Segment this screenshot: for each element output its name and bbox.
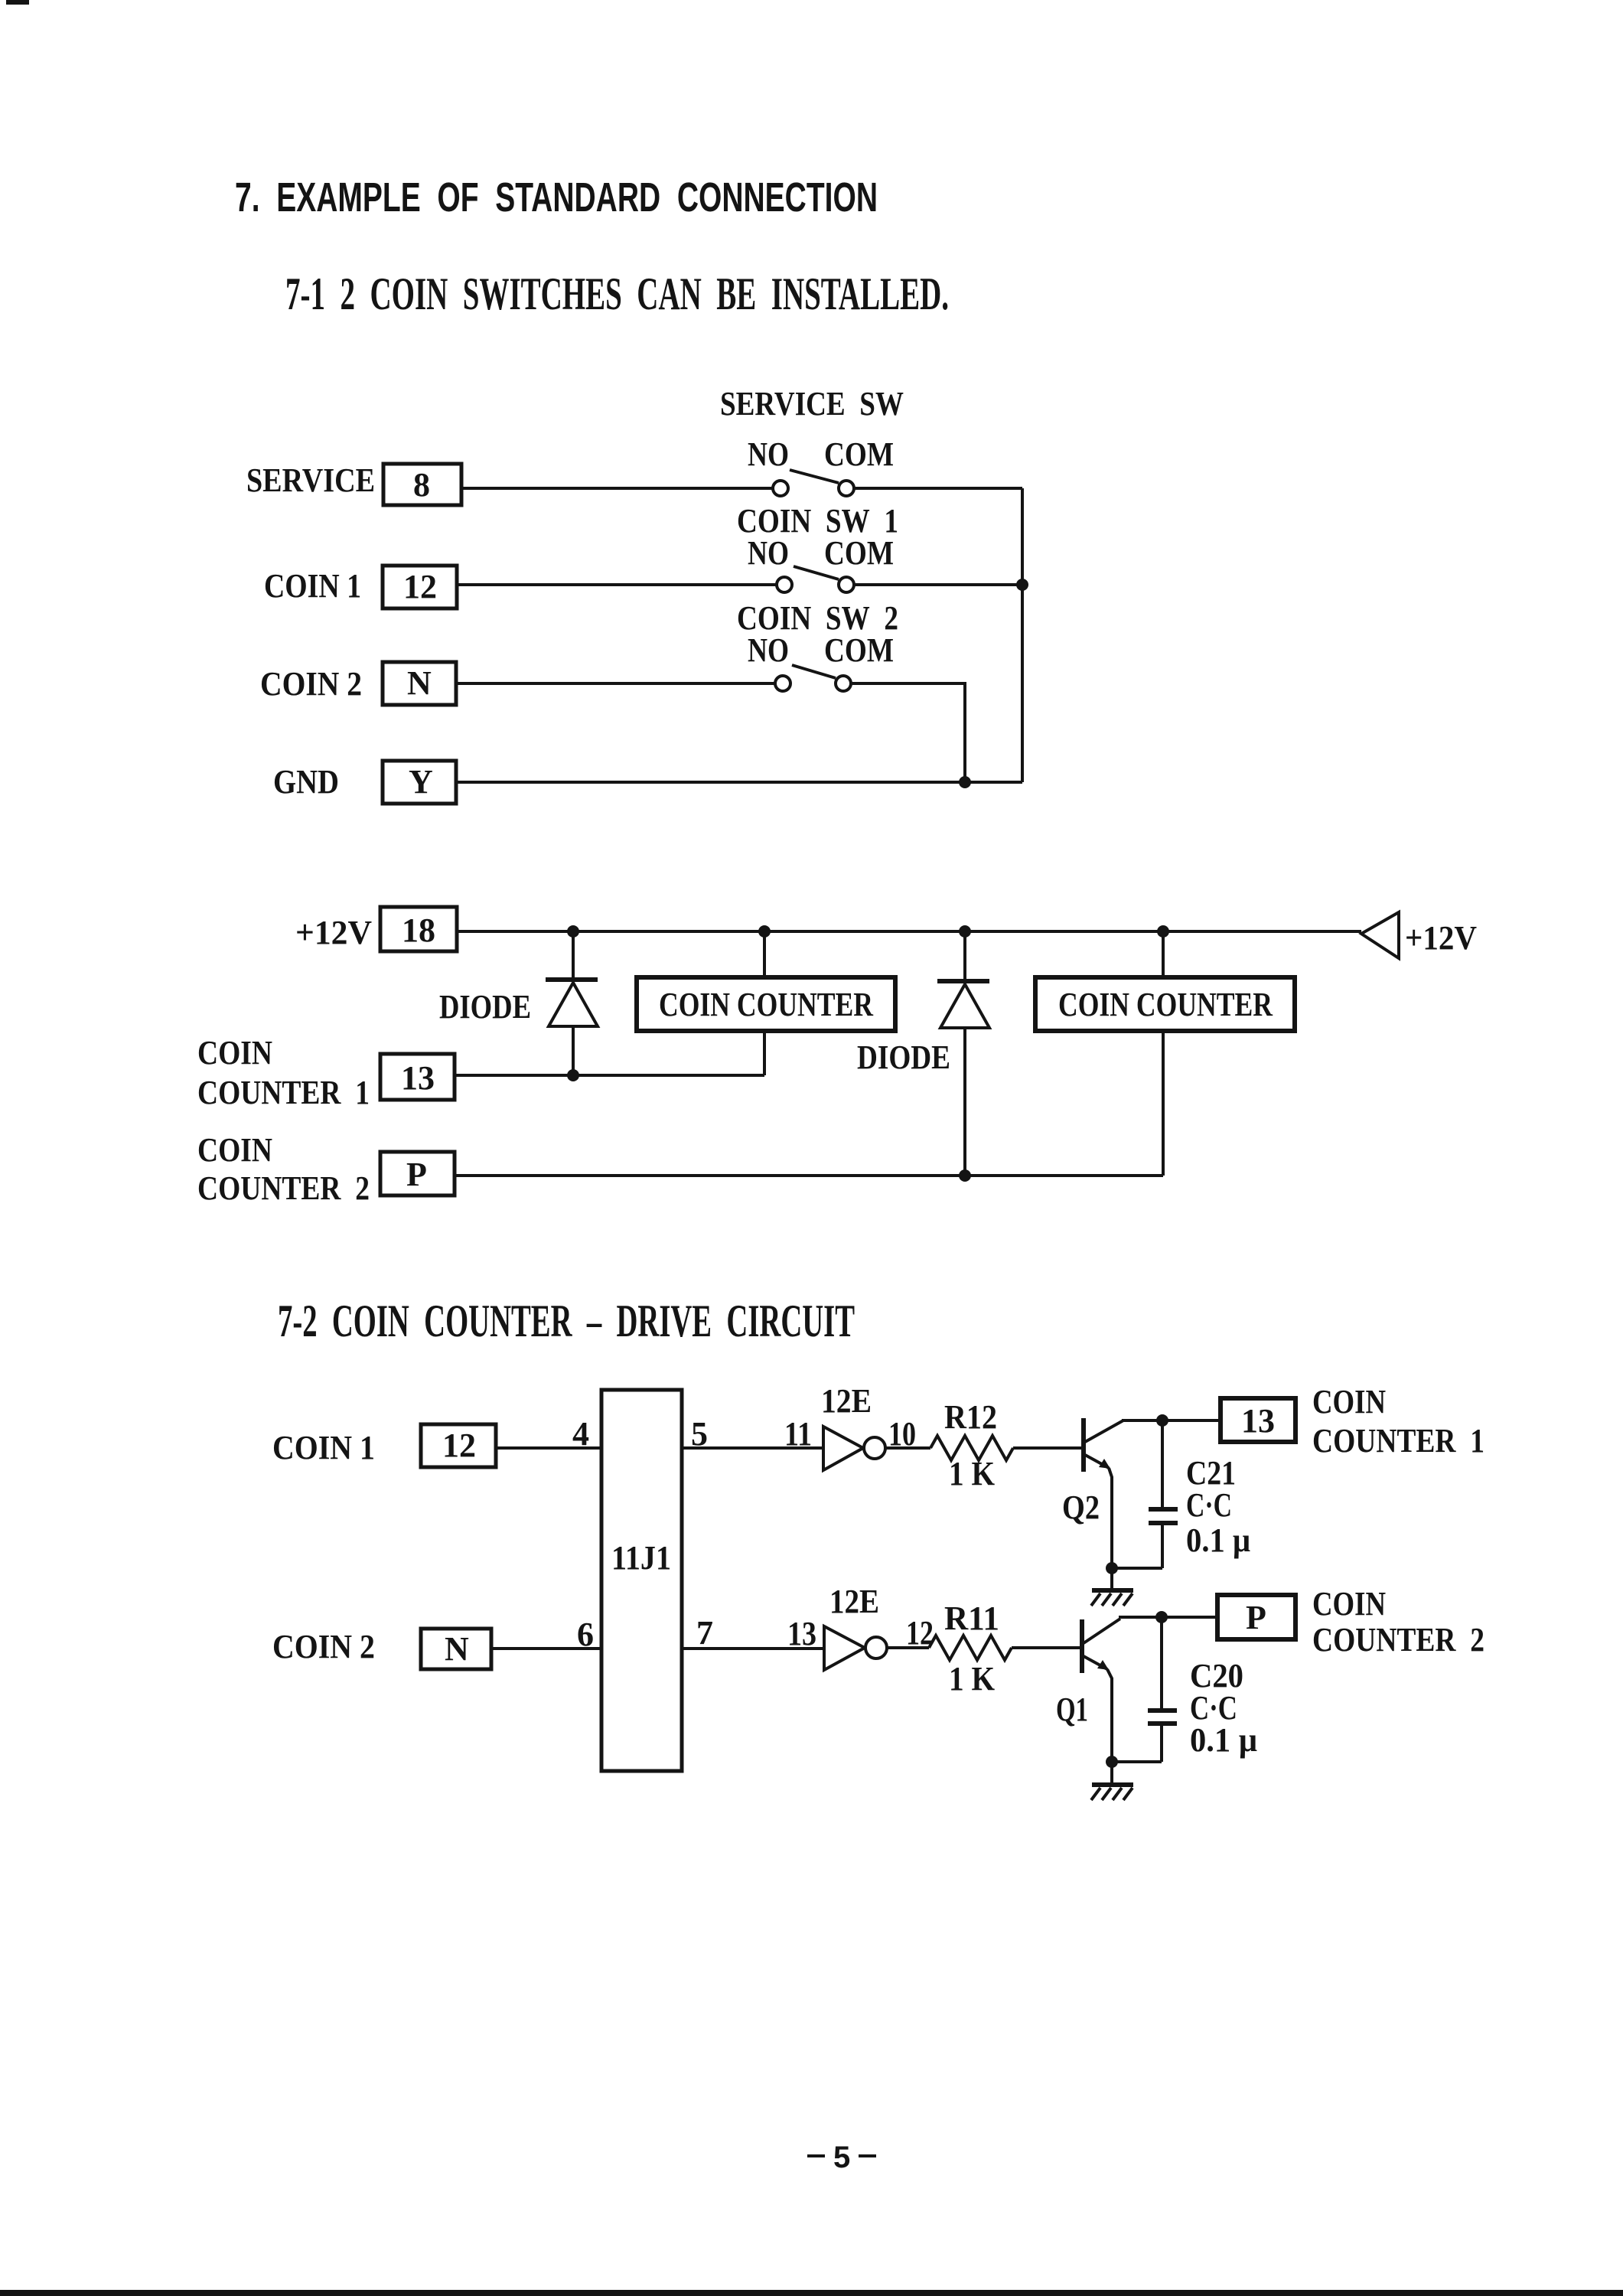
wire bus to counter2 top bbox=[1162, 931, 1165, 977]
wire coin1 COM to right bus bbox=[853, 583, 1022, 586]
wire coin2 to connector 11J1 bbox=[491, 1647, 601, 1650]
svg-text:12E: 12E bbox=[821, 1382, 872, 1420]
capacitor C21 bbox=[1149, 1420, 1178, 1568]
svg-text:5: 5 bbox=[833, 2141, 850, 2174]
wire GND Y to right bus bbox=[456, 781, 1022, 784]
wire 11J1 pin7 to inverter bbox=[682, 1647, 824, 1650]
label DIODE 2 bbox=[857, 1039, 950, 1076]
label COIN 1 bbox=[264, 567, 361, 605]
svg-text:COIN 1: COIN 1 bbox=[264, 567, 361, 605]
svg-text:COM: COM bbox=[824, 435, 894, 473]
svg-text:NO: NO bbox=[748, 631, 789, 669]
pin 6 bbox=[577, 1616, 594, 1653]
label COIN COUNTER 2 (right) bbox=[1312, 1585, 1484, 1658]
label SERVICE bbox=[246, 461, 375, 499]
diode D1 bbox=[546, 931, 598, 1075]
svg-text:13: 13 bbox=[1241, 1402, 1275, 1440]
svg-text:NO: NO bbox=[748, 534, 789, 572]
wire coin2 COM down to gnd row bbox=[850, 683, 965, 782]
svg-text:COIN 1: COIN 1 bbox=[272, 1429, 375, 1466]
bottom scan bar bbox=[0, 2290, 1623, 2296]
connector pin box 18 bbox=[380, 907, 457, 951]
wire coin1 12 to switch bbox=[457, 583, 777, 586]
label 1 K (R11) bbox=[949, 1660, 995, 1698]
pin 4 bbox=[572, 1415, 589, 1453]
label COIN 2 bbox=[260, 665, 362, 703]
label C-C (C21) bbox=[1186, 1486, 1232, 1524]
+12V arrow terminal bbox=[1361, 912, 1399, 958]
label GND bbox=[273, 763, 339, 801]
resistor R11 bbox=[888, 1636, 1080, 1660]
svg-text:R12: R12 bbox=[944, 1398, 997, 1436]
label +12V right bbox=[1405, 919, 1477, 957]
junction emitter/gnd 2 bbox=[1106, 1756, 1118, 1768]
svg-text:6: 6 bbox=[577, 1616, 594, 1653]
svg-text:+12V: +12V bbox=[1405, 919, 1477, 957]
ground (Q2 emitter) bbox=[1091, 1568, 1133, 1606]
junction counter1/bus bbox=[758, 925, 771, 938]
connector pin box N (7-2) bbox=[421, 1629, 491, 1669]
svg-text:R11: R11 bbox=[944, 1600, 999, 1637]
label COIN 2 bbox=[272, 1628, 375, 1665]
junction coin2/gnd bbox=[959, 776, 971, 788]
pin 13 bbox=[787, 1615, 816, 1652]
wire Q2 collector to box 13 bbox=[1122, 1419, 1221, 1422]
svg-text:Q1: Q1 bbox=[1056, 1691, 1088, 1728]
label 12E (inverter 2) bbox=[829, 1583, 879, 1620]
page number - 5 - bbox=[807, 2141, 876, 2174]
right bus vertical wire bbox=[1021, 488, 1024, 782]
svg-text:DIODE: DIODE bbox=[439, 988, 531, 1026]
junction diode2/P row bbox=[959, 1169, 971, 1182]
label COM (coin sw 2) bbox=[824, 631, 894, 669]
svg-text:COIN: COIN bbox=[197, 1034, 272, 1071]
label COIN SW 2 bbox=[737, 599, 898, 637]
label C-C (C20) bbox=[1190, 1689, 1237, 1727]
junction collector/C21 bbox=[1156, 1414, 1168, 1427]
svg-text:SERVICE SW: SERVICE SW bbox=[720, 385, 904, 422]
svg-text:0.1 μ: 0.1 μ bbox=[1190, 1721, 1257, 1759]
svg-text:C·C: C·C bbox=[1186, 1486, 1232, 1524]
label R12 bbox=[944, 1398, 997, 1436]
svg-text:COM: COM bbox=[824, 631, 894, 669]
ground (Q1 emitter) bbox=[1091, 1762, 1133, 1800]
label NO (coin sw 2) bbox=[748, 631, 789, 669]
svg-text:NO: NO bbox=[748, 435, 789, 473]
wire service COM to right bus bbox=[853, 487, 1022, 490]
svg-text:Y: Y bbox=[409, 763, 433, 801]
label Q1 bbox=[1056, 1691, 1088, 1728]
svg-text:COUNTER 1: COUNTER 1 bbox=[1312, 1422, 1484, 1459]
svg-text:COIN COUNTER: COIN COUNTER bbox=[1058, 986, 1273, 1023]
svg-text:0.1 μ: 0.1 μ bbox=[1186, 1521, 1250, 1559]
connector pin box 13 (7-2) bbox=[1221, 1398, 1295, 1442]
label SERVICE SW bbox=[720, 385, 904, 422]
label R11 bbox=[944, 1600, 999, 1637]
pin 7 bbox=[696, 1614, 713, 1652]
svg-text:12E: 12E bbox=[829, 1583, 879, 1620]
switch COIN SW 1 bbox=[777, 566, 854, 592]
svg-text:7-1 2 COIN SWITCHES CAN B: 7-1 2 COIN SWITCHES CAN BE INSTALLED. bbox=[285, 269, 949, 319]
svg-text:11J1: 11J1 bbox=[611, 1539, 671, 1577]
svg-text:COIN: COIN bbox=[1312, 1585, 1386, 1623]
wire service 8 to switch bbox=[461, 487, 774, 490]
connector pin box Y bbox=[383, 761, 456, 804]
svg-text:COUNTER 1: COUNTER 1 bbox=[197, 1074, 370, 1111]
svg-text:COIN: COIN bbox=[197, 1131, 272, 1169]
svg-text:4: 4 bbox=[572, 1415, 589, 1453]
label C20 bbox=[1190, 1657, 1243, 1694]
label COM (service sw) bbox=[824, 435, 894, 473]
wire emitter row to C20 bottom bbox=[1112, 1760, 1162, 1763]
pin 5 bbox=[691, 1415, 708, 1453]
inverter U12E-1 bbox=[823, 1427, 885, 1470]
connector pin box P (7-2) bbox=[1217, 1595, 1295, 1639]
svg-text:N: N bbox=[407, 664, 432, 702]
label 0.1 u (C21) bbox=[1186, 1521, 1250, 1559]
svg-text:1 K: 1 K bbox=[949, 1660, 995, 1698]
svg-text:18: 18 bbox=[402, 912, 435, 949]
svg-text:DIODE: DIODE bbox=[857, 1039, 950, 1076]
svg-text:GND: GND bbox=[273, 763, 339, 801]
svg-text:1 K: 1 K bbox=[949, 1455, 995, 1492]
connector pin box 12 bbox=[383, 566, 457, 608]
pin 12 bbox=[906, 1614, 934, 1652]
label 1 K (R12) bbox=[949, 1455, 995, 1492]
svg-text:8: 8 bbox=[413, 466, 430, 504]
svg-text:12: 12 bbox=[403, 568, 437, 605]
junction diode2/bus bbox=[959, 925, 971, 938]
connector pin box P bbox=[380, 1152, 455, 1195]
label COIN 1 bbox=[272, 1429, 375, 1466]
label COIN SW 1 bbox=[737, 502, 898, 540]
pin 11 bbox=[784, 1415, 812, 1453]
svg-text:COM: COM bbox=[824, 534, 894, 572]
pin 10 bbox=[888, 1415, 916, 1453]
connector pin box 12 (7-2) bbox=[421, 1424, 496, 1467]
wire P row bbox=[455, 1174, 1163, 1177]
svg-text:P: P bbox=[1246, 1599, 1266, 1636]
wire counter2 bottom to P row bbox=[1162, 1031, 1165, 1176]
label COIN COUNTER 1 (right) bbox=[1312, 1383, 1484, 1459]
junction coin1/bus bbox=[1016, 579, 1028, 591]
scan artifact top-left corner mark bbox=[6, 0, 29, 5]
svg-text:SERVICE: SERVICE bbox=[246, 461, 375, 499]
svg-text:Q2: Q2 bbox=[1062, 1489, 1100, 1526]
wire coin1 to connector 11J1 bbox=[496, 1446, 601, 1450]
svg-text:11: 11 bbox=[784, 1415, 812, 1453]
junction collector/C20 bbox=[1155, 1611, 1168, 1623]
label NO (coin sw 1) bbox=[748, 534, 789, 572]
label COIN COUNTER 2 (left, two lines) bbox=[197, 1131, 370, 1207]
label Q2 bbox=[1062, 1489, 1100, 1526]
coin counter box 1 bbox=[637, 977, 895, 1031]
svg-text:COUNTER 2: COUNTER 2 bbox=[1312, 1621, 1484, 1658]
wire coin2 N to switch bbox=[456, 682, 776, 685]
label 12E (inverter 1) bbox=[821, 1382, 872, 1420]
label +12V left bbox=[295, 914, 372, 951]
label COM (coin sw 1) bbox=[824, 534, 894, 572]
junction counter2/bus bbox=[1157, 925, 1169, 938]
+12V bus wire bbox=[457, 930, 1361, 933]
junction emitter/gnd bbox=[1106, 1562, 1118, 1574]
svg-text:13: 13 bbox=[787, 1615, 816, 1652]
svg-text:13: 13 bbox=[401, 1059, 435, 1097]
switch COIN SW 2 bbox=[775, 665, 851, 691]
svg-text:COIN 2: COIN 2 bbox=[272, 1628, 375, 1665]
svg-text:+12V: +12V bbox=[295, 914, 372, 951]
svg-text:7: 7 bbox=[696, 1614, 713, 1652]
svg-text:N: N bbox=[445, 1630, 469, 1668]
transistor Q1 bbox=[1082, 1619, 1120, 1762]
svg-text:7-2 COIN COUNTER – DRIVE: 7-2 COIN COUNTER – DRIVE CIRCUIT bbox=[278, 1296, 855, 1346]
wire Q1 collector to box P bbox=[1119, 1616, 1217, 1619]
connector 11J1 bbox=[601, 1390, 682, 1771]
connector pin box N bbox=[383, 662, 456, 705]
svg-text:7. EXAMPLE OF STANDARD CON: 7. EXAMPLE OF STANDARD CONNECTION bbox=[235, 174, 878, 220]
resistor R12 bbox=[886, 1436, 1081, 1460]
wire bus to counter1 top bbox=[763, 931, 766, 977]
transistor Q2 bbox=[1084, 1418, 1123, 1568]
connector pin box 8 bbox=[383, 464, 461, 505]
connector pin box 13 bbox=[380, 1054, 455, 1100]
label DIODE 1 bbox=[439, 988, 531, 1026]
coin counter box 2 bbox=[1035, 977, 1295, 1031]
svg-text:COIN 2: COIN 2 bbox=[260, 665, 362, 703]
wire counter1 bottom to 13 row bbox=[763, 1031, 766, 1075]
junction diode1/bus bbox=[567, 925, 579, 938]
wire 11J1 pin5 to inverter bbox=[682, 1446, 823, 1450]
junction diode1/13 row bbox=[567, 1069, 579, 1081]
capacitor C20 bbox=[1148, 1617, 1177, 1762]
svg-text:12: 12 bbox=[442, 1427, 476, 1464]
switch SERVICE SW bbox=[773, 470, 854, 496]
svg-text:COUNTER 2: COUNTER 2 bbox=[197, 1169, 370, 1207]
label C21 bbox=[1186, 1454, 1236, 1492]
inverter U12E-2 bbox=[824, 1626, 887, 1670]
svg-text:P: P bbox=[406, 1156, 427, 1193]
wire emitter row to C21 bottom bbox=[1112, 1567, 1162, 1570]
diode D2 bbox=[937, 931, 989, 1176]
wire 13 row bbox=[455, 1074, 764, 1077]
svg-text:COIN: COIN bbox=[1312, 1383, 1386, 1420]
label NO (service sw) bbox=[748, 435, 789, 473]
svg-text:COIN COUNTER: COIN COUNTER bbox=[659, 986, 874, 1023]
label 0.1 u (C20) bbox=[1190, 1721, 1257, 1759]
label COIN COUNTER 1 (left, two lines) bbox=[197, 1034, 370, 1111]
